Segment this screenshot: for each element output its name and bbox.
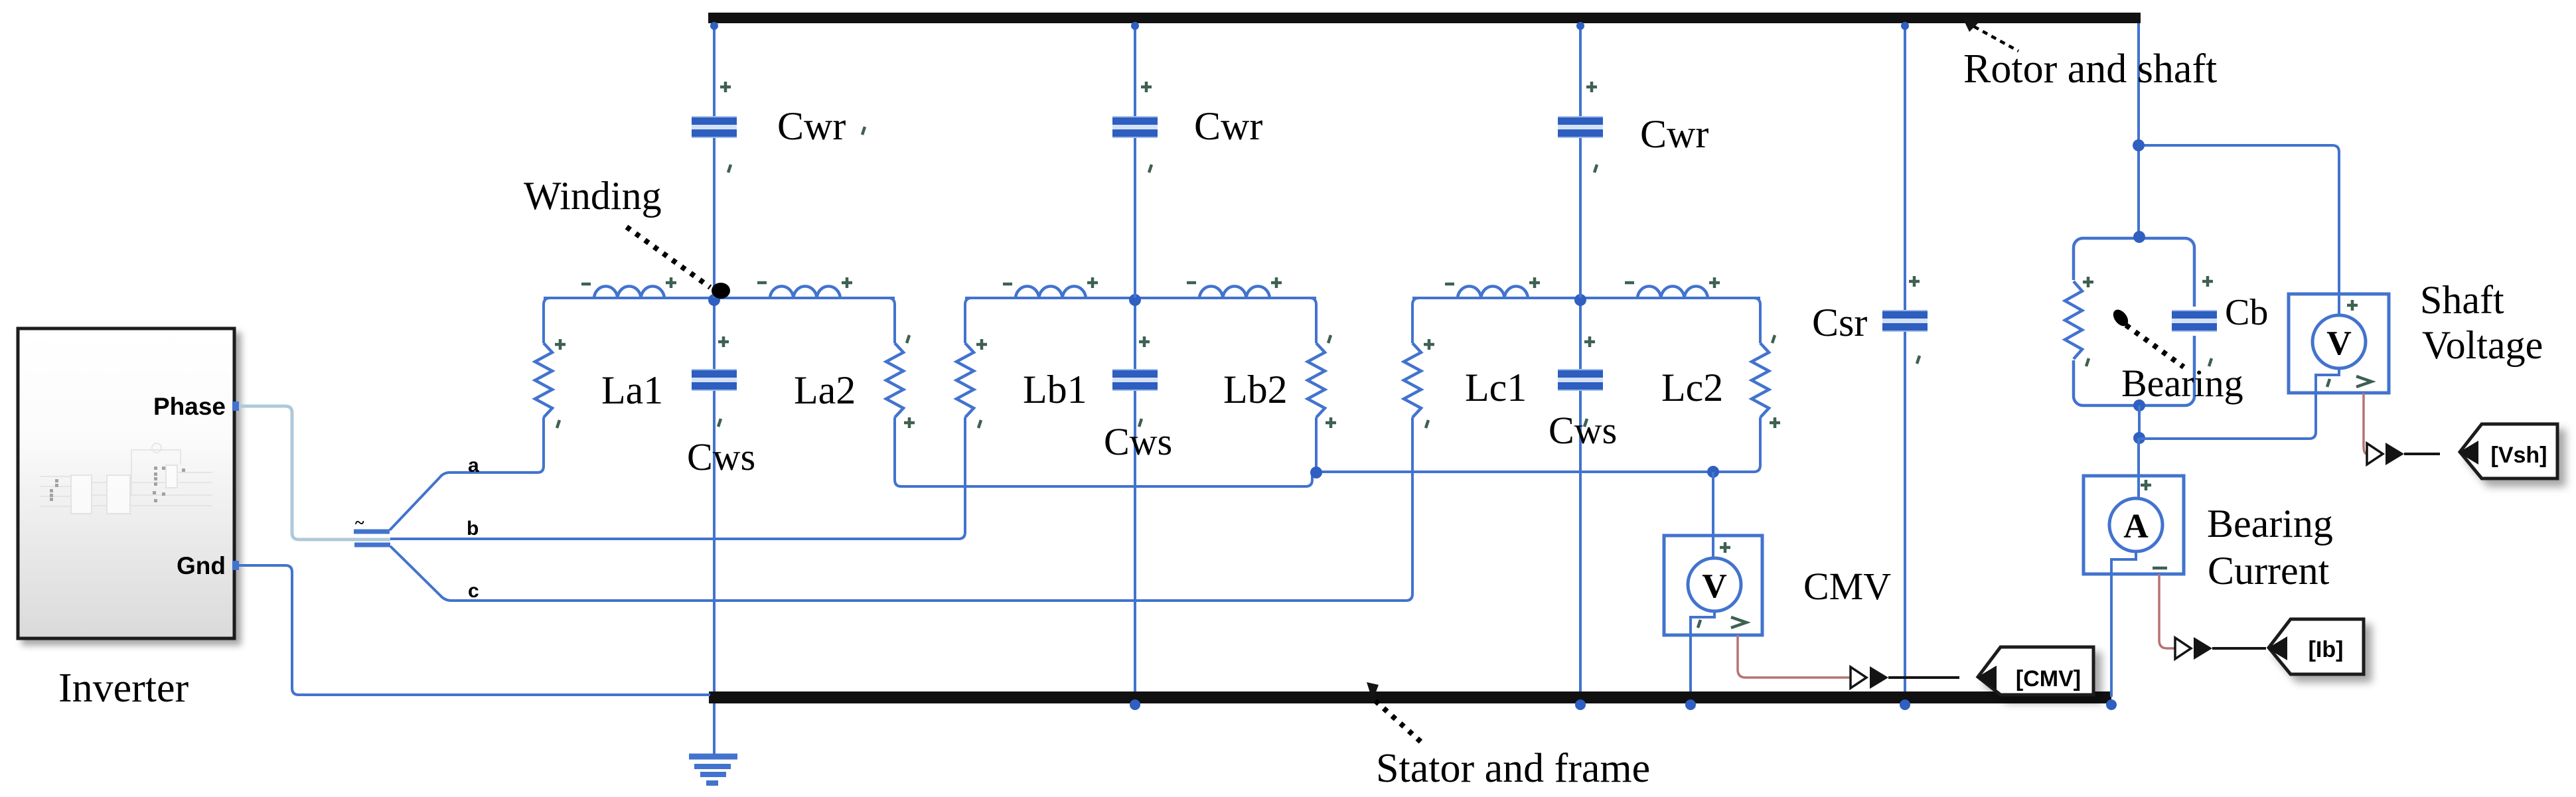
junction dot Cwr A at rotor bar <box>710 22 718 30</box>
wire junction to ammeter <box>2137 438 2140 476</box>
inductor Lb2 <box>1199 286 1270 298</box>
svg-text:V: V <box>1702 567 1727 605</box>
neutral wire phase B to C <box>1316 417 1760 472</box>
bearing parallel branch outline <box>2074 238 2194 405</box>
junction dot winding node A <box>708 294 720 306</box>
phase A top wire <box>544 297 895 299</box>
wire ammeter to stator bar <box>2110 574 2113 697</box>
winding resistor C2 (right branch) <box>1754 298 1760 343</box>
Vsh signal arrows and line <box>2367 443 2383 465</box>
capacitor Cb (right branch) <box>2181 307 2208 336</box>
svg-text:Inverter: Inverter <box>58 666 189 711</box>
capacitor Cws (C center branch) <box>1579 298 1582 691</box>
inductor La2 <box>770 286 840 298</box>
CMV voltmeter block <box>1664 536 1762 635</box>
svg-text:Csr: Csr <box>1812 301 1867 344</box>
inductor Lc2 <box>1637 286 1708 298</box>
svg-text:Cb: Cb <box>2225 292 2268 333</box>
svg-text:Cwr: Cwr <box>777 104 846 148</box>
wire: Gnd output <box>236 565 710 695</box>
svg-text:Gnd: Gnd <box>177 552 226 579</box>
inductor Lb1 <box>1016 286 1086 298</box>
capacitor Csr <box>1904 23 1906 691</box>
junction dot below bearing <box>2133 432 2145 444</box>
capacitor Cwr phase C <box>1579 23 1582 298</box>
svg-text:CMV: CMV <box>1803 565 1891 608</box>
wire c: splitter to phase C <box>390 430 1412 601</box>
svg-text:Shaft: Shaft <box>2420 278 2504 322</box>
svg-text:Rotor and shaft: Rotor and shaft <box>1963 46 2217 92</box>
junction dot Cwr B at rotor bar <box>1131 22 1139 30</box>
svg-text:La2: La2 <box>794 368 856 412</box>
svg-text:Phase: Phase <box>153 393 226 420</box>
svg-text:Lc2: Lc2 <box>1661 366 1723 409</box>
ground <box>689 703 737 783</box>
CMV signal arrows and line <box>1851 667 1866 688</box>
svg-text:A: A <box>2123 508 2149 545</box>
inductor La1 <box>594 286 664 298</box>
three-phase splitter node <box>354 532 390 545</box>
wire: Phase output (light blue) <box>236 406 390 540</box>
junction dot shaft node <box>2133 139 2145 151</box>
svg-text:Cws: Cws <box>1549 409 1617 452</box>
capacitor Cwr A minus mark <box>862 127 865 135</box>
junction dot Cwr C at rotor bar <box>1576 22 1584 30</box>
wire rotor bar to shaft node <box>2137 23 2140 145</box>
wire neutral to CMV voltmeter <box>1712 472 1714 536</box>
winding resistor B1 (left branch) <box>965 298 972 343</box>
junction dot bearing bottom <box>2133 399 2145 411</box>
phase B top wire <box>965 297 1316 299</box>
junction dot winding node C <box>1574 294 1586 306</box>
svg-text:c: c <box>468 580 479 602</box>
CMV measurement line (red) <box>1738 635 1850 678</box>
goto tag [Ib] <box>2269 619 2364 674</box>
Ib signal arrows and line <box>2175 638 2191 659</box>
capacitor Cwr phase A <box>713 23 716 298</box>
svg-text:b: b <box>467 518 479 540</box>
svg-text:Cws: Cws <box>687 435 755 478</box>
junction dot CMV tap <box>1707 466 1719 478</box>
svg-text:V: V <box>2326 325 2352 362</box>
winding resistor A2 (right branch) <box>888 298 895 343</box>
inverter port nubs <box>232 401 239 570</box>
junction dot winding node B <box>1129 294 1141 306</box>
junction dot neutral at B <box>1310 467 1322 478</box>
svg-text:a: a <box>468 455 479 476</box>
shaft voltage measurement line (red) <box>2364 393 2367 454</box>
inductor Lc1 <box>1458 286 1528 298</box>
svg-text:Current: Current <box>2208 549 2330 593</box>
bearing callout dot and dashed arrow <box>2110 307 2131 328</box>
inverter subsystem block <box>18 328 234 638</box>
capacitor Cwr phase B <box>1134 23 1136 298</box>
winding resistor B2 (right branch) <box>1310 298 1316 343</box>
svg-text:Voltage: Voltage <box>2422 323 2543 367</box>
svg-text:~: ~ <box>355 513 364 532</box>
wire CMV voltmeter to stator bar <box>1689 635 1692 691</box>
winding resistor C1 (left branch) <box>1412 298 1419 343</box>
svg-text:Stator and frame: Stator and frame <box>1376 746 1650 791</box>
svg-text:Cwr: Cwr <box>1640 112 1708 156</box>
junction dot Csr at stator bar <box>1900 699 1910 710</box>
shaft voltage voltmeter block <box>2289 294 2389 393</box>
stator and frame bus bar <box>709 691 2111 703</box>
goto tag [CMV] <box>1978 647 2093 695</box>
svg-text:Cwr: Cwr <box>1194 104 1262 148</box>
svg-text:Winding: Winding <box>524 174 662 218</box>
junction dot bearing top <box>2133 231 2145 243</box>
wire b: splitter to phase B <box>390 430 965 539</box>
svg-text:[Vsh]: [Vsh] <box>2491 443 2547 468</box>
junction dot Csr at rotor bar <box>1901 22 1909 30</box>
svg-text:Lb1: Lb1 <box>1023 368 1087 411</box>
junction dot CMV at stator bar <box>1685 699 1696 710</box>
winding resistor A1 (left branch) <box>544 298 550 343</box>
phase C top wire <box>1412 297 1760 299</box>
svg-text:[Ib]: [Ib] <box>2309 637 2344 662</box>
svg-text:Lb2: Lb2 <box>1223 368 1288 411</box>
capacitor Cws (A center branch) <box>713 298 716 691</box>
rotor and shaft bus bar <box>708 13 2141 23</box>
svg-text:Bearing: Bearing <box>2207 502 2333 545</box>
wire junction to shaft-voltage meter minus <box>2139 393 2316 439</box>
wire bearing bottom to junction <box>2138 405 2141 438</box>
bearing resistor (left branch) <box>2060 280 2087 360</box>
bearing current ammeter block <box>2084 476 2184 574</box>
junction dot B at stator bar <box>1130 699 1140 710</box>
junction dot C at stator bar <box>1575 699 1586 710</box>
goto tag [Vsh] <box>2460 424 2557 478</box>
svg-text:[CMV]: [CMV] <box>2016 666 2081 691</box>
bearing current measurement line (red) <box>2159 574 2174 648</box>
junction dot ammeter at stator bar <box>2106 699 2117 710</box>
svg-text:Bearing: Bearing <box>2121 362 2243 405</box>
wire shaft node to shaft-voltage meter <box>2139 145 2339 294</box>
svg-text:La1: La1 <box>601 368 663 412</box>
capacitor Cws (B center branch) <box>1134 298 1136 691</box>
wire shaft node down to bearing <box>2137 145 2140 238</box>
wire a: splitter to phase A <box>390 430 544 530</box>
svg-text:Cws: Cws <box>1104 420 1172 463</box>
neutral wire phase A to B <box>895 472 1312 486</box>
svg-text:Lc1: Lc1 <box>1465 366 1527 409</box>
